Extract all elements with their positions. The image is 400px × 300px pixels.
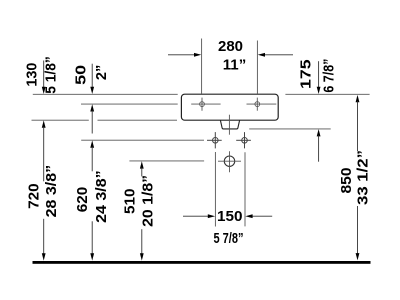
- svg-text:50: 50: [72, 65, 89, 85]
- dim 280 arrow right: [258, 53, 293, 57]
- svg-text:175: 175: [298, 59, 315, 89]
- notch centerline: [228, 115, 230, 135]
- svg-text:150: 150: [217, 208, 243, 225]
- dim 510 line: [140, 161, 144, 260]
- svg-text:720: 720: [26, 183, 43, 209]
- rim extension line right: [285, 93, 369, 95]
- svg-text:28 3/8”: 28 3/8”: [43, 165, 60, 218]
- fixing hole left (crosshair): [207, 132, 222, 148]
- notch bottom level extension line (175): [249, 128, 331, 130]
- svg-text:5 7/8”: 5 7/8”: [214, 230, 244, 247]
- svg-text:130: 130: [24, 63, 41, 87]
- drain level extension line (510): [129, 160, 204, 162]
- basin outline: [181, 94, 278, 120]
- svg-text:2”: 2”: [93, 65, 110, 80]
- svg-text:850: 850: [338, 168, 355, 194]
- fixing hole level extension line (620): [81, 139, 204, 141]
- basin bottom level extension line left: [32, 119, 89, 121]
- svg-text:20 1/8”: 20 1/8”: [140, 175, 157, 227]
- floor line: [33, 261, 371, 264]
- dim 280 extension line right: [256, 41, 258, 94]
- svg-text:33 1/2”: 33 1/2”: [354, 150, 371, 205]
- fixing hole right (crosshair): [236, 132, 251, 148]
- mounting hole left (crosshair): [191, 98, 220, 111]
- dim 280 arrow left: [168, 53, 201, 57]
- dim 280 extension line left: [201, 39, 203, 94]
- dim 150 arrow right: [245, 214, 272, 218]
- svg-text:280: 280: [218, 38, 243, 55]
- rim extension line left: [33, 93, 178, 95]
- dim 175 upper arrow: [317, 61, 321, 94]
- svg-text:11”: 11”: [223, 56, 247, 73]
- svg-text:24 3/8”: 24 3/8”: [93, 170, 110, 223]
- svg-text:510: 510: [121, 189, 138, 215]
- dim 150 extension line right: [244, 152, 246, 226]
- dim 620 line: [90, 140, 94, 260]
- svg-text:620: 620: [74, 187, 91, 213]
- tap hole level extension line (50): [81, 103, 178, 105]
- dim 130/720 shared arrow + 720 line: [42, 120, 46, 260]
- overflow notch: [220, 120, 239, 129]
- dim 175 lower arrow: [317, 129, 321, 162]
- dim 50 upper arrow: [90, 64, 94, 94]
- dim 50 lower arrow: [90, 104, 94, 133]
- dim 130 upper arrow: [42, 61, 46, 95]
- mounting hole right (crosshair): [247, 98, 277, 111]
- svg-text:6 7/8”: 6 7/8”: [320, 59, 337, 93]
- dim 850 line: [356, 95, 360, 261]
- drain hole (crosshair circle): [224, 156, 234, 166]
- dim 150 extension line left: [214, 152, 216, 227]
- dim 150 arrow left: [183, 214, 215, 218]
- svg-text:5 1/8”: 5 1/8”: [42, 56, 59, 94]
